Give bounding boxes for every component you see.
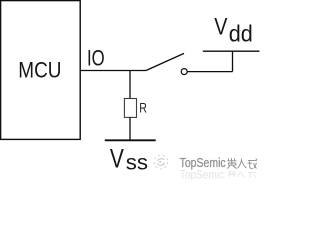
wire vertical to Vdd rail: [232, 51, 234, 71]
svg-text:dd: dd: [229, 21, 253, 47]
Vdd rail: [203, 50, 260, 52]
svg-text:ss: ss: [126, 151, 148, 174]
watermark logo: [154, 155, 168, 169]
wire resistor to ground: [129, 118, 131, 141]
ground Vss bar: [105, 139, 156, 141]
svg-text:V: V: [110, 144, 125, 174]
svg-text:IO: IO: [87, 46, 105, 71]
switch S1 lever (open): [146, 53, 184, 70]
wire switch contact to Vdd stub: [187, 71, 232, 73]
svg-text:MCU: MCU: [18, 58, 61, 83]
wire IO from MCU to switch pivot: [80, 70, 146, 72]
watermark CJK 嵌入式 glyph strokes: [227, 158, 257, 169]
resistor R body: [124, 99, 136, 118]
svg-text:V: V: [214, 13, 227, 40]
svg-text:TopSemic: TopSemic: [180, 169, 225, 180]
svg-text:R: R: [139, 100, 147, 116]
switch S1 contact circle: [181, 69, 187, 75]
wire junction drop to resistor: [129, 71, 131, 99]
MCU U1 box: [1, 1, 81, 140]
